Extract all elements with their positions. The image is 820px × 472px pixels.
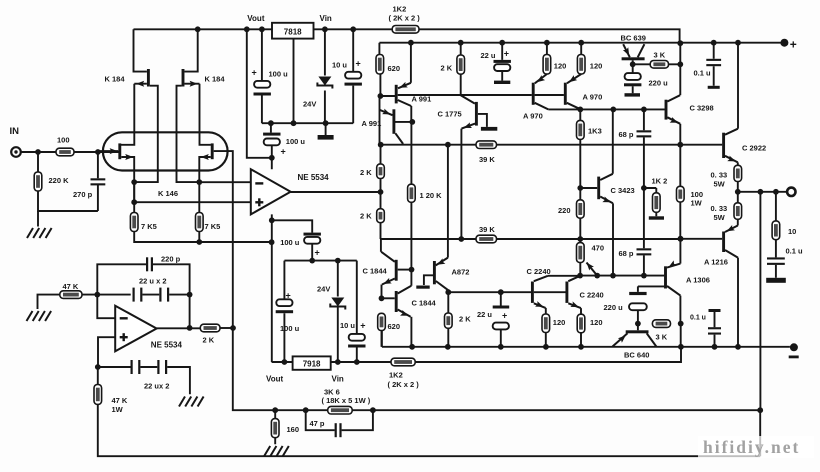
svg-text:K 184: K 184 <box>205 75 226 84</box>
svg-text:C 1775: C 1775 <box>438 110 462 119</box>
svg-text:1W: 1W <box>112 405 124 414</box>
svg-text:+: + <box>790 38 797 52</box>
svg-text:100 u: 100 u <box>280 324 300 333</box>
svg-text:3 K: 3 K <box>656 333 668 342</box>
svg-text:7 K5: 7 K5 <box>205 222 221 231</box>
svg-text:Vin: Vin <box>320 14 332 23</box>
svg-text:10 u: 10 u <box>340 321 355 330</box>
svg-text:NE 5534: NE 5534 <box>151 341 183 350</box>
svg-text:68 p: 68 p <box>619 249 634 258</box>
svg-text:C 2240: C 2240 <box>527 267 551 276</box>
svg-text:Vout: Vout <box>266 375 284 384</box>
svg-text:7818: 7818 <box>284 28 302 37</box>
svg-text:120: 120 <box>553 318 566 327</box>
svg-text:24V: 24V <box>317 285 330 294</box>
svg-text:A 1216: A 1216 <box>704 258 728 267</box>
svg-text:47 p: 47 p <box>310 419 325 428</box>
svg-text:1W: 1W <box>691 199 703 208</box>
svg-text:22 u: 22 u <box>477 310 492 319</box>
svg-text:220 K: 220 K <box>49 176 70 185</box>
svg-text:( 2K x 2 ): ( 2K x 2 ) <box>389 14 421 23</box>
svg-text:1 20 K: 1 20 K <box>420 191 443 200</box>
svg-text:10: 10 <box>788 227 796 236</box>
svg-text:+: + <box>315 248 320 258</box>
svg-text:22 ux 2: 22 ux 2 <box>144 382 169 391</box>
svg-text:620: 620 <box>388 322 401 331</box>
svg-text:2 K: 2 K <box>360 212 372 221</box>
svg-text:0. 33: 0. 33 <box>711 171 728 180</box>
svg-text:C 3298: C 3298 <box>690 104 714 113</box>
svg-text:22 u x 2: 22 u x 2 <box>139 277 167 286</box>
svg-text:5W: 5W <box>714 213 726 222</box>
svg-text:3 K: 3 K <box>654 51 666 60</box>
svg-text:C 2240: C 2240 <box>580 291 604 300</box>
svg-text:470: 470 <box>592 244 605 253</box>
svg-text:5W: 5W <box>714 180 726 189</box>
svg-text:+: + <box>502 311 507 321</box>
svg-text:220 u: 220 u <box>649 79 669 88</box>
svg-text:0.1 u: 0.1 u <box>690 315 706 322</box>
svg-text:100 u: 100 u <box>280 238 300 247</box>
svg-text:BC 639: BC 639 <box>621 34 646 43</box>
svg-text:+: + <box>356 59 361 69</box>
svg-text:100: 100 <box>57 136 70 145</box>
svg-text:47 K: 47 K <box>63 282 79 291</box>
svg-text:220 u: 220 u <box>604 303 624 312</box>
svg-text:47 K: 47 K <box>112 396 128 405</box>
svg-text:2 K: 2 K <box>441 64 453 73</box>
svg-text:160: 160 <box>287 425 300 434</box>
svg-text:A 970: A 970 <box>523 112 543 121</box>
svg-text:1K 2: 1K 2 <box>652 177 668 186</box>
svg-text:220: 220 <box>558 206 571 215</box>
svg-text:+: + <box>252 68 257 78</box>
svg-text:100 u: 100 u <box>286 137 306 146</box>
svg-text:Vout: Vout <box>247 14 265 23</box>
svg-text:620: 620 <box>388 64 401 73</box>
svg-text:22 u: 22 u <box>481 51 496 60</box>
svg-text:100 u: 100 u <box>269 70 289 79</box>
svg-text:39 K: 39 K <box>479 155 495 164</box>
svg-text:Vin: Vin <box>332 375 344 384</box>
svg-text:+: + <box>360 321 365 331</box>
svg-text:1K3: 1K3 <box>588 127 602 136</box>
svg-text:+: + <box>504 49 509 59</box>
svg-text:7918: 7918 <box>303 360 321 369</box>
svg-text:7 K5: 7 K5 <box>141 222 157 231</box>
svg-text:0.1 u: 0.1 u <box>786 247 804 256</box>
svg-text:C 3423: C 3423 <box>611 186 635 195</box>
svg-text:K 184: K 184 <box>105 75 126 84</box>
svg-text:K 146: K 146 <box>158 189 178 198</box>
svg-text:39 K: 39 K <box>479 225 495 234</box>
svg-text:10 u: 10 u <box>332 61 347 70</box>
svg-text:C 1844: C 1844 <box>412 299 437 308</box>
svg-text:68 p: 68 p <box>619 130 634 139</box>
svg-text:A 1306: A 1306 <box>686 276 710 285</box>
svg-text:24V: 24V <box>303 100 316 109</box>
svg-text:2 K: 2 K <box>459 315 471 324</box>
svg-text:C 2922: C 2922 <box>742 144 766 153</box>
svg-text:BC 640: BC 640 <box>624 351 649 360</box>
svg-text:120: 120 <box>590 318 603 327</box>
svg-text:( 18K x 5 1W ): ( 18K x 5 1W ) <box>322 396 371 405</box>
svg-text:+: + <box>281 147 286 157</box>
svg-text:NE 5534: NE 5534 <box>298 173 330 182</box>
svg-text:hifidiy.net: hifidiy.net <box>703 437 800 457</box>
svg-text:A 991: A 991 <box>362 119 382 128</box>
svg-text:A872: A872 <box>452 268 470 277</box>
svg-text:120: 120 <box>554 62 567 71</box>
svg-text:0. 33: 0. 33 <box>711 204 728 213</box>
svg-text:( 2K x 2 ): ( 2K x 2 ) <box>388 380 420 389</box>
svg-text:120: 120 <box>590 62 603 71</box>
svg-text:220 p: 220 p <box>161 255 181 264</box>
svg-text:1K2: 1K2 <box>393 5 407 14</box>
svg-text:IN: IN <box>10 126 20 137</box>
svg-text:A 970: A 970 <box>583 93 603 102</box>
svg-text:C 1844: C 1844 <box>363 267 388 276</box>
svg-text:2 K: 2 K <box>360 168 372 177</box>
svg-text:+: + <box>286 291 291 301</box>
svg-text:2 K: 2 K <box>203 336 215 345</box>
svg-text:270 p: 270 p <box>73 190 93 199</box>
svg-text:1K2: 1K2 <box>389 371 403 380</box>
svg-text:0.1 u: 0.1 u <box>694 69 712 78</box>
